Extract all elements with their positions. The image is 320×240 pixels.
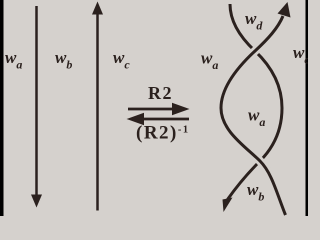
strand w_a line (left figure, downward strand)	[35, 6, 38, 195]
left arrow head	[127, 113, 145, 125]
svg-text:R2: R2	[148, 83, 173, 103]
right black column	[306, 0, 309, 216]
arrowhead down-left on S1	[223, 198, 233, 213]
strand line 2 (left figure, upward strand)	[96, 13, 99, 211]
arrowhead up on strand 2	[92, 2, 103, 15]
braid strand S2 (over strand: from bottom-right, bulge left, to top-right up arrow)	[221, 16, 286, 215]
right arrow shaft	[128, 108, 173, 111]
right arrow head	[172, 103, 190, 115]
arrowhead up on S2	[278, 2, 291, 18]
left arrow shaft	[143, 118, 189, 121]
arrowhead down on strand 1	[31, 195, 42, 208]
braid strand S1 (under strand: from top-left, bulge right, to bottom-left down arrow)	[228, 4, 283, 200]
left black column	[0, 0, 4, 216]
background halo to create under-crossing gaps along S2	[221, 16, 286, 215]
